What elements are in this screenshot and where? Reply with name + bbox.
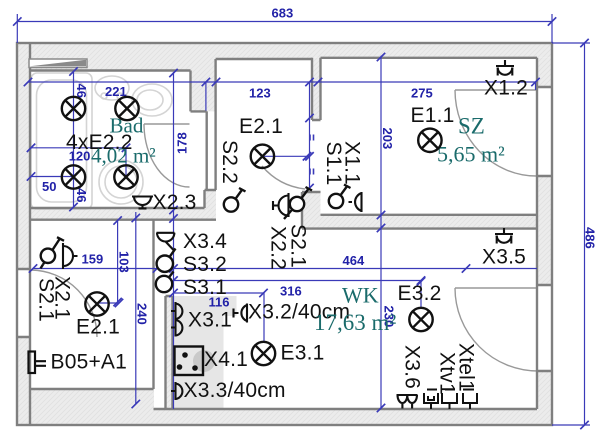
svg-text:E3.2: E3.2 — [398, 282, 442, 305]
svg-text:X1.2: X1.2 — [484, 77, 528, 100]
svg-text:X4.1: X4.1 — [204, 348, 248, 371]
svg-text:WK: WK — [342, 283, 379, 308]
svg-text:123: 123 — [249, 86, 271, 101]
svg-text:B05+A1: B05+A1 — [51, 351, 128, 374]
svg-text:5,65 m²: 5,65 m² — [437, 142, 505, 167]
svg-text:159: 159 — [82, 252, 104, 267]
svg-text:50: 50 — [42, 179, 56, 194]
svg-text:X3.4: X3.4 — [183, 230, 227, 253]
svg-text:240: 240 — [135, 303, 150, 325]
svg-text:S1.1: S1.1 — [322, 142, 345, 186]
svg-text:103: 103 — [117, 251, 132, 273]
svg-text:17,63 m²: 17,63 m² — [314, 310, 396, 335]
svg-text:Xtv1: Xtv1 — [436, 352, 459, 395]
svg-text:X3.6: X3.6 — [401, 345, 424, 389]
svg-text:E1.1: E1.1 — [411, 104, 455, 127]
svg-text:S2.2: S2.2 — [218, 140, 241, 184]
svg-text:X2.3: X2.3 — [153, 191, 197, 214]
svg-text:E2.1: E2.1 — [239, 115, 283, 138]
svg-text:X2.2: X2.2 — [267, 226, 290, 270]
svg-text:S3.1: S3.1 — [183, 276, 227, 299]
svg-text:203: 203 — [380, 128, 395, 150]
svg-text:X3.1: X3.1 — [188, 309, 232, 332]
svg-text:S3.2: S3.2 — [183, 253, 227, 276]
svg-text:4,02 m²: 4,02 m² — [91, 144, 156, 168]
svg-text:Bad: Bad — [110, 114, 144, 138]
svg-text:275: 275 — [411, 86, 433, 101]
svg-text:683: 683 — [272, 6, 294, 21]
svg-text:46: 46 — [74, 188, 89, 202]
svg-text:486: 486 — [583, 227, 598, 249]
svg-text:E2.1: E2.1 — [76, 316, 120, 339]
svg-text:SZ: SZ — [458, 114, 485, 139]
svg-text:S2.1: S2.1 — [35, 278, 58, 322]
svg-text:E3.1: E3.1 — [281, 342, 325, 365]
svg-text:X3.3/40cm: X3.3/40cm — [184, 379, 286, 402]
svg-text:178: 178 — [175, 132, 190, 154]
svg-text:316: 316 — [280, 284, 302, 299]
svg-text:46: 46 — [74, 84, 89, 98]
svg-text:S2.1: S2.1 — [287, 224, 310, 268]
svg-text:464: 464 — [343, 253, 365, 268]
svg-text:X3.5: X3.5 — [482, 246, 526, 269]
